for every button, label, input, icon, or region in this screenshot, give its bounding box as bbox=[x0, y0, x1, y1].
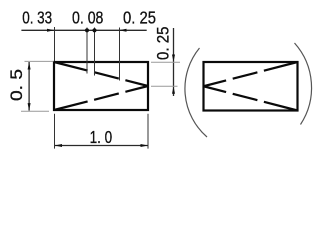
svg-text:0. 33: 0. 33 bbox=[22, 7, 52, 27]
extension line x=119 bbox=[119, 28, 121, 81]
right vertical dimension 0.25 bbox=[173, 28, 175, 96]
taper line upper dash 1 bbox=[54, 62, 88, 71]
vdim arrow up tip at bottom ext bbox=[172, 86, 175, 94]
dot origin 1 bbox=[85, 28, 89, 32]
extension line left bottom bbox=[21, 110, 49, 112]
right taper upper dash 3 bbox=[204, 80, 227, 86]
taper line upper dash 2 bbox=[94, 72, 119, 78]
bottom ext line right bbox=[147, 114, 149, 149]
taper line upper dash 3 bbox=[125, 80, 148, 86]
svg-text:0. 25: 0. 25 bbox=[123, 7, 156, 27]
svg-text:1. 0: 1. 0 bbox=[90, 127, 113, 147]
vdim arrow down tip at top ext bbox=[172, 55, 175, 63]
right taper lower dash 2 bbox=[233, 94, 258, 100]
left dim arrow up bbox=[28, 62, 31, 70]
left dimension line 0.5 bbox=[28, 62, 30, 111]
taper line lower dash 2 bbox=[94, 93, 119, 99]
bottom dimension line 1.0 bbox=[55, 145, 149, 147]
bottom arrow left bbox=[55, 144, 63, 147]
right taper upper dash 2 bbox=[233, 72, 258, 78]
bottom arrow right bbox=[141, 144, 149, 147]
svg-text:0. 08: 0. 08 bbox=[72, 7, 103, 27]
bottom ext line left bbox=[54, 114, 56, 149]
right parenthesis bbox=[295, 43, 312, 125]
extension line right apex bbox=[151, 85, 178, 87]
arrow right at x=54.5 bbox=[47, 29, 55, 32]
arrow left at x=119 bbox=[119, 29, 127, 32]
extension line x=86.5 bbox=[86, 28, 88, 74]
taper line lower dash 1 bbox=[54, 101, 88, 110]
top dimension line bbox=[21, 29, 146, 31]
rectangle body (right view) bbox=[204, 62, 298, 111]
extension line x=54.5 bbox=[54, 27, 56, 61]
right taper lower dash 1 bbox=[264, 102, 298, 111]
right taper upper dash 1 bbox=[264, 62, 298, 71]
right taper lower dash 3 bbox=[204, 86, 227, 92]
left parenthesis bbox=[185, 48, 207, 137]
extension line left top bbox=[25, 60, 54, 62]
svg-text:0. 5: 0. 5 bbox=[8, 69, 26, 101]
svg-text:0. 25: 0. 25 bbox=[155, 27, 173, 61]
left dim arrow down bbox=[28, 103, 31, 111]
rectangle body (left view) bbox=[54, 62, 148, 110]
extension line x=94.5 bbox=[94, 28, 96, 76]
dot origin 2 bbox=[92, 28, 96, 32]
taper line lower dash 3 bbox=[125, 86, 148, 92]
extension line right top bbox=[151, 61, 180, 63]
